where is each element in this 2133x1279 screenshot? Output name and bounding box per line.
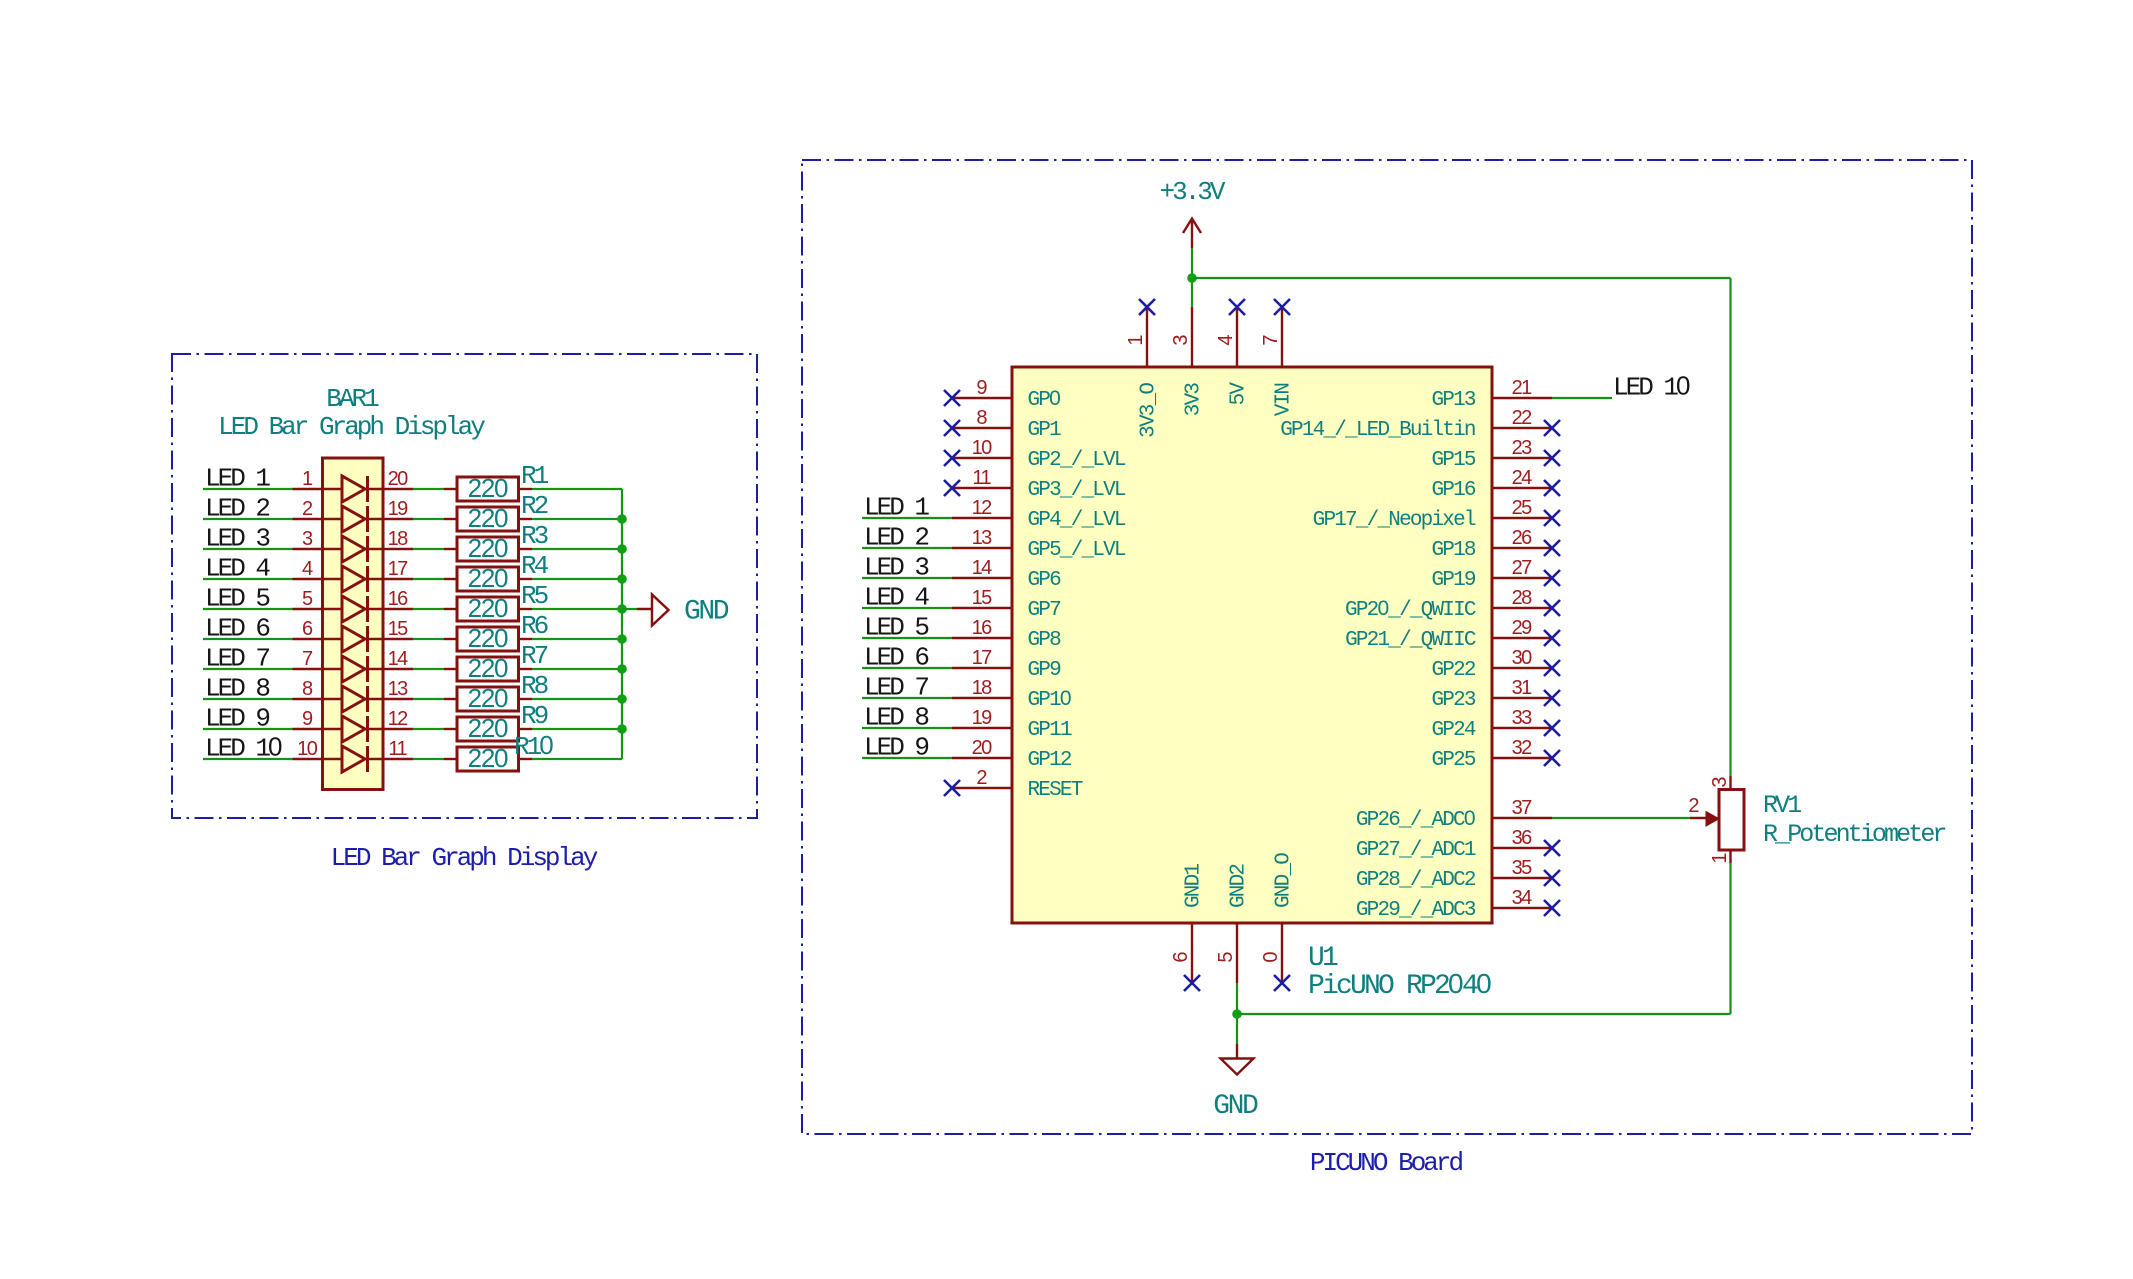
wire +3.3V rail to RV1 pin 3 (horizontal) [1192,277,1731,279]
svg-text:RESET: RESET [1028,779,1083,802]
svg-text:GND_O: GND_O [1273,853,1296,908]
svg-text:13: 13 [972,527,993,549]
svg-text:18: 18 [388,528,409,550]
wire +3.3V rail to RV1 pin 3 (vertical) [1729,278,1731,776]
U1 pin 8 (GP1) [952,407,1061,442]
svg-text:GP4_/_LVL: GP4_/_LVL [1028,509,1126,532]
svg-text:28: 28 [1512,587,1533,609]
no-connect X on U1 pin 31 [1544,690,1560,706]
wire resistor R2 to GND bus [532,518,622,520]
svg-text:3: 3 [1709,777,1731,788]
svg-text:5V: 5V [1228,382,1251,406]
no-connect X on U1 pin 23 [1544,450,1560,466]
svg-text:14: 14 [972,557,993,579]
wire BAR1 pin 15 to resistor R6 [413,638,444,640]
U1 pin 6 (GND1) bottom [1170,864,1206,983]
junction on GND bus at row 5 [617,604,627,614]
svg-text:10: 10 [297,738,318,760]
U1 pin 15 (GP7) [952,587,1060,622]
svg-text:LED 3: LED 3 [864,553,928,583]
LED diode element 3 inside BAR1 [342,536,368,562]
svg-text:220: 220 [468,593,508,623]
svg-text:220: 220 [468,713,508,743]
wire resistor R8 to GND bus [532,698,622,700]
wire BAR1 pin 20 to resistor R1 [413,488,444,490]
BAR1 pin 19 [368,498,414,520]
no-connect X on U1 pin 4 [1229,299,1245,315]
svg-text:PicUNO RP2040: PicUNO RP2040 [1308,968,1491,1002]
svg-text:3V3_O: 3V3_O [1138,383,1161,438]
wire BAR1 pin 16 to resistor R5 [413,608,444,610]
svg-text:U1: U1 [1308,943,1338,974]
BAR1 pin 5 [293,588,343,610]
svg-text:29: 29 [1512,617,1533,639]
no-connect X on U1 pin 6 [1184,975,1200,991]
no-connect X on U1 pin 28 [1544,600,1560,616]
no-connect X on U1 pin 2 [944,780,960,796]
svg-text:34: 34 [1512,887,1533,909]
U1 pin 37 (GP26_/_ADC0) [1356,797,1552,832]
svg-text:220: 220 [468,743,508,773]
RV1 wiper arrow (pin 2) [1690,812,1719,827]
svg-text:LED 8: LED 8 [205,674,269,704]
wire net LED 9 to U1 pin 20 [862,757,952,759]
wire net LED 3 to U1 pin 14 [862,577,952,579]
U1 pin 27 (GP19) [1431,557,1552,592]
svg-text:LED 2: LED 2 [864,523,928,553]
svg-text:3V3: 3V3 [1183,383,1206,417]
svg-text:GND: GND [684,597,729,628]
wire resistor R1 to GND bus [532,488,622,490]
svg-text:9: 9 [976,377,987,399]
svg-text:19: 19 [972,707,993,729]
svg-text:30: 30 [1512,647,1533,669]
wire net LED 1 to U1 pin 12 [862,517,952,519]
junction on GND bus at row 7 [617,664,627,674]
svg-text:LED 1: LED 1 [205,464,270,494]
wire net LED 9 to BAR1 pin 9 [203,728,293,730]
no-connect X on U1 pin 9 [944,390,960,406]
wire net LED 7 to U1 pin 18 [862,697,952,699]
svg-text:24: 24 [1512,467,1533,489]
U1 pin 26 (GP18) [1431,527,1552,562]
svg-text:GP21_/_QWIIC: GP21_/_QWIIC [1345,629,1476,652]
U1 pin 29 (GP21_/_QWIIC) [1345,617,1552,652]
U1 pin 28 (GP20_/_QWIIC) [1345,587,1552,622]
U1 pin 30 (GP22) [1431,647,1552,682]
BAR1 pin 8 [293,678,343,700]
wire BAR1 pin 17 to resistor R4 [413,578,444,580]
svg-text:GND: GND [1213,1091,1258,1122]
no-connect X on U1 pin 0 [1274,975,1290,991]
svg-text:GP19: GP19 [1431,569,1475,592]
wire net LED 4 to BAR1 pin 4 [203,578,293,580]
svg-text:37: 37 [1512,797,1533,819]
svg-text:GP28_/_ADC2: GP28_/_ADC2 [1356,869,1476,892]
svg-text:GP24: GP24 [1431,719,1475,742]
no-connect X on U1 pin 26 [1544,540,1560,556]
resistor R9 [444,717,532,741]
svg-text:LED 6: LED 6 [205,614,269,644]
wire net LED 1 to BAR1 pin 1 [203,488,293,490]
svg-text:17: 17 [972,647,993,669]
resistor R7 [444,657,532,681]
no-connect X on U1 pin 11 [944,480,960,496]
LED diode element 8 inside BAR1 [342,686,368,712]
svg-text:LED 6: LED 6 [864,643,928,673]
svg-text:26: 26 [1512,527,1533,549]
svg-text:GP22: GP22 [1431,659,1475,682]
U1 pin 20 (GP12) [952,737,1072,772]
svg-text:LED 3: LED 3 [205,524,269,554]
svg-text:33: 33 [1512,707,1533,729]
junction on GND bus at row 3 [617,544,627,554]
svg-text:R3: R3 [521,521,548,551]
svg-text:32: 32 [1512,737,1533,759]
wire BAR1 pin 12 to resistor R9 [413,728,444,730]
svg-text:36: 36 [1512,827,1533,849]
svg-text:220: 220 [468,623,508,653]
svg-text:10: 10 [972,437,993,459]
svg-text:BAR1: BAR1 [326,384,379,414]
svg-text:6: 6 [1170,952,1192,963]
LED diode element 7 inside BAR1 [342,656,368,682]
svg-text:GP0: GP0 [1028,387,1061,412]
wire BAR1 pin 11 to resistor R10 [413,758,444,760]
+3.3V power symbol [1183,219,1201,249]
svg-text:LED Bar Graph Display: LED Bar Graph Display [218,412,485,442]
svg-text:R7: R7 [521,641,548,671]
no-connect X on U1 pin 36 [1544,840,1560,856]
wire resistor R3 to GND bus [532,548,622,550]
svg-text:2: 2 [976,767,987,789]
resistor R8 [444,687,532,711]
no-connect X on U1 pin 29 [1544,630,1560,646]
svg-text:16: 16 [972,617,993,639]
U1 pin 34 (GP29_/_ADC3) [1356,887,1552,922]
BAR1 pin 4 [293,558,343,580]
BAR1 pin 6 [293,618,343,640]
BAR1 pin 18 [368,528,414,550]
svg-text:3: 3 [1170,335,1192,346]
potentiometer RV1 body [1719,776,1744,863]
BAR1 pin 10 [293,738,343,760]
LED diode element 10 inside BAR1 [342,746,368,772]
svg-text:220: 220 [468,563,508,593]
sheet box: PICUNO Board [802,160,1972,1134]
wire GND bus to GND power symbol [622,608,637,610]
U1 pin 33 (GP24) [1431,707,1552,742]
U1 pin 24 (GP16) [1431,467,1552,502]
svg-text:8: 8 [976,407,987,429]
U1 pin 16 (GP8) [952,617,1061,652]
no-connect X on U1 pin 8 [944,420,960,436]
U1 pin 0 (GND_O) bottom [1260,853,1296,983]
wire U1 GND2 down to ground junction [1236,983,1238,1044]
svg-text:9: 9 [302,708,313,730]
svg-text:GP14_/_LED_Builtin: GP14_/_LED_Builtin [1280,419,1475,442]
svg-text:11: 11 [972,467,991,489]
wire BAR1 pin 18 to resistor R3 [413,548,444,550]
U1 pin 10 (GP2_/_LVL) [952,437,1126,472]
wire net LED 6 to BAR1 pin 6 [203,638,293,640]
svg-text:GP27_/_ADC1: GP27_/_ADC1 [1356,839,1476,862]
svg-text:18: 18 [972,677,993,699]
wire net LED 8 to U1 pin 19 [862,727,952,729]
resistor R2 [444,507,532,531]
no-connect X on U1 pin 34 [1544,900,1560,916]
svg-text:GP12: GP12 [1028,749,1072,772]
no-connect X on U1 pin 25 [1544,510,1560,526]
svg-text:GP9: GP9 [1028,659,1062,682]
svg-text:GP3_/_LVL: GP3_/_LVL [1028,479,1126,502]
svg-text:VIN: VIN [1273,384,1296,417]
svg-text:R1: R1 [521,461,549,491]
svg-text:LED 9: LED 9 [864,733,928,763]
no-connect X on U1 pin 22 [1544,420,1560,436]
svg-text:GP5_/_LVL: GP5_/_LVL [1028,539,1126,562]
BAR1 pin 13 [368,678,414,700]
U1 pin 13 (GP5_/_LVL) [952,527,1126,562]
svg-text:LED 7: LED 7 [205,644,269,674]
svg-text:20: 20 [972,737,993,759]
U1 pin 12 (GP4_/_LVL) [952,497,1126,532]
junction at GND2 node [1232,1009,1242,1019]
no-connect X on U1 pin 27 [1544,570,1560,586]
no-connect X on U1 pin 30 [1544,660,1560,676]
U1 pin 4 (5V) top [1215,307,1251,405]
svg-text:19: 19 [388,498,409,520]
junction on GND bus at row 4 [617,574,627,584]
svg-text:27: 27 [1512,557,1533,579]
U1 pin 18 (GP10) [952,677,1071,712]
svg-text:3: 3 [302,528,313,550]
svg-text:LED 5: LED 5 [864,613,928,643]
LED diode element 6 inside BAR1 [342,626,368,652]
svg-text:220: 220 [468,473,508,503]
svg-text:LED 5: LED 5 [205,584,269,614]
wire net LED 8 to BAR1 pin 8 [203,698,293,700]
wire +3.3V symbol to U1 3V3 pin [1191,248,1193,307]
wire net LED 2 to BAR1 pin 2 [203,518,293,520]
svg-text:16: 16 [388,588,409,610]
wire resistor R9 to GND bus [532,728,622,730]
no-connect X on U1 pin 10 [944,450,960,466]
svg-text:15: 15 [972,587,993,609]
svg-text:7: 7 [302,648,313,670]
svg-text:GP23: GP23 [1431,689,1475,712]
BAR1 pin 16 [368,588,414,610]
svg-text:GP25: GP25 [1431,749,1475,772]
wire net LED 5 to BAR1 pin 5 [203,608,293,610]
svg-text:17: 17 [388,558,409,580]
no-connect X on U1 pin 24 [1544,480,1560,496]
BAR1 pin 9 [293,708,343,730]
no-connect X on U1 pin 35 [1544,870,1560,886]
BAR1 pin 11 [368,738,414,760]
svg-text:31: 31 [1512,677,1533,699]
BAR1 pin 1 [293,468,343,490]
U1 pin 14 (GP6) [952,557,1061,592]
wire net LED 10 to BAR1 pin 10 [203,758,293,760]
junction on GND bus at row 2 [617,514,627,524]
svg-text:PICUNO Board: PICUNO Board [1310,1148,1463,1178]
wire net LED 2 to U1 pin 13 [862,547,952,549]
svg-text:GP20_/_QWIIC: GP20_/_QWIIC [1345,597,1476,622]
svg-text:6: 6 [302,618,313,640]
svg-text:GP16: GP16 [1431,479,1475,502]
svg-text:LED 4: LED 4 [864,583,929,613]
svg-text:4: 4 [1215,335,1237,346]
svg-text:20: 20 [388,468,409,490]
svg-text:2: 2 [302,498,313,520]
svg-text:12: 12 [388,708,409,730]
no-connect X on U1 pin 33 [1544,720,1560,736]
wire: vertical GND bus collecting all resistors [621,489,623,759]
svg-text:5: 5 [1215,952,1237,963]
svg-text:220: 220 [468,503,508,533]
svg-text:LED 10: LED 10 [1613,371,1690,403]
no-connect X on U1 pin 32 [1544,750,1560,766]
LED diode element 2 inside BAR1 [342,506,368,532]
resistor R10 [444,747,532,771]
wire U1 GP13 to net LED 10 [1552,397,1612,399]
svg-text:GP6: GP6 [1028,569,1062,592]
U1 pin 11 (GP3_/_LVL) [952,467,1126,502]
U1 pin 36 (GP27_/_ADC1) [1356,827,1552,862]
wire BAR1 pin 14 to resistor R7 [413,668,444,670]
svg-text:R8: R8 [521,671,548,701]
svg-text:GP2_/_LVL: GP2_/_LVL [1028,449,1126,472]
resistor R6 [444,627,532,651]
svg-text:R5: R5 [521,581,548,611]
wire BAR1 pin 19 to resistor R2 [413,518,444,520]
microcontroller U1 PicUNO RP2040 body [1012,367,1492,923]
svg-text:GP18: GP18 [1431,539,1475,562]
svg-text:LED 8: LED 8 [864,703,928,733]
U1 pin 2 (RESET) [952,767,1083,802]
wire ground junction to RV1 pin 1 (horizontal) [1237,1013,1731,1015]
svg-text:7: 7 [1260,335,1282,346]
svg-text:2: 2 [1688,795,1699,817]
wire U1 GP26/ADC0 to RV1 wiper [1552,817,1690,819]
wire BAR1 pin 13 to resistor R8 [413,698,444,700]
svg-text:220: 220 [468,683,508,713]
resistor R5 [444,597,532,621]
LED diode element 4 inside BAR1 [342,566,368,592]
svg-text:GP11: GP11 [1028,719,1072,742]
junction on GND bus at row 9 [617,724,627,734]
BAR1 pin 14 [368,648,414,670]
svg-text:14: 14 [388,648,409,670]
BAR1 pin 17 [368,558,414,580]
svg-text:GP29_/_ADC3: GP29_/_ADC3 [1356,899,1476,922]
svg-text:23: 23 [1512,437,1533,459]
BAR1 pin 15 [368,618,414,640]
wire resistor R5 to GND bus [532,608,622,610]
svg-text:R9: R9 [521,701,548,731]
svg-text:RV1: RV1 [1763,791,1801,820]
svg-text:R10: R10 [514,730,553,762]
sheet box: LED Bar Graph Display [172,354,757,818]
wire net LED 5 to U1 pin 16 [862,637,952,639]
BAR1 pin 3 [293,528,343,550]
wire resistor R4 to GND bus [532,578,622,580]
wire net LED 3 to BAR1 pin 3 [203,548,293,550]
svg-text:220: 220 [468,533,508,563]
no-connect X on U1 pin 7 [1274,299,1290,315]
svg-text:GP7: GP7 [1028,599,1061,622]
svg-text:8: 8 [302,678,313,700]
svg-text:GP10: GP10 [1028,687,1071,712]
svg-text:GP13: GP13 [1431,389,1475,412]
BAR1 pin 7 [293,648,343,670]
ground power symbol (open arrow style) [637,595,669,626]
svg-text:LED 10: LED 10 [205,732,282,764]
U1 pin 9 (GP0) [952,377,1060,412]
wire resistor R10 to GND bus [532,758,622,760]
svg-text:35: 35 [1512,857,1533,879]
wire resistor R7 to GND bus [532,668,622,670]
svg-text:R2: R2 [521,491,548,521]
U1 pin 35 (GP28_/_ADC2) [1356,857,1552,892]
svg-text:220: 220 [468,653,508,683]
junction on GND bus at row 8 [617,694,627,704]
LED diode element 9 inside BAR1 [342,716,368,742]
svg-text:11: 11 [388,738,407,760]
svg-text:1: 1 [1709,853,1731,864]
svg-text:25: 25 [1512,497,1533,519]
svg-text:1: 1 [302,468,313,490]
U1 pin 22 (GP14_/_LED_Builtin) [1280,407,1552,442]
svg-text:LED 4: LED 4 [205,554,270,584]
wire RV1 pin 1 down to ground rail (vertical) [1729,863,1731,1014]
U1 pin 19 (GP11) [952,707,1072,742]
U1 pin 5 (GND2) bottom [1215,864,1251,983]
LED bar graph BAR1 body [323,458,384,790]
svg-text:LED 7: LED 7 [864,673,928,703]
svg-text:R_Potentiometer: R_Potentiometer [1763,820,1945,849]
LED diode element 5 inside BAR1 [342,596,368,622]
svg-text:R6: R6 [521,611,548,641]
U1 pin 21 (GP13) [1431,377,1552,412]
svg-text:15: 15 [388,618,409,640]
svg-text:GP17_/_Neopixel: GP17_/_Neopixel [1313,509,1476,532]
svg-text:5: 5 [302,588,313,610]
wire net LED 4 to U1 pin 15 [862,607,952,609]
U1 pin 1 (3V3_O) top [1125,307,1161,438]
svg-text:22: 22 [1512,407,1533,429]
BAR1 pin 12 [368,708,414,730]
svg-text:+3.3V: +3.3V [1159,177,1225,207]
svg-text:12: 12 [972,497,993,519]
svg-text:GND1: GND1 [1183,864,1206,908]
LED diode element 1 inside BAR1 [342,476,368,502]
U1 pin 7 (VIN) top [1260,307,1296,416]
svg-text:4: 4 [302,558,313,580]
svg-text:GND2: GND2 [1228,864,1251,908]
wire resistor R6 to GND bus [532,638,622,640]
svg-text:GP8: GP8 [1028,629,1062,652]
U1 pin 31 (GP23) [1431,677,1552,712]
resistor R3 [444,537,532,561]
svg-text:13: 13 [388,678,409,700]
svg-text:LED 9: LED 9 [205,704,269,734]
BAR1 pin 20 [368,468,414,490]
svg-text:GP1: GP1 [1028,419,1062,442]
U1 pin 25 (GP17_/_Neopixel) [1313,497,1552,532]
wire net LED 7 to BAR1 pin 7 [203,668,293,670]
